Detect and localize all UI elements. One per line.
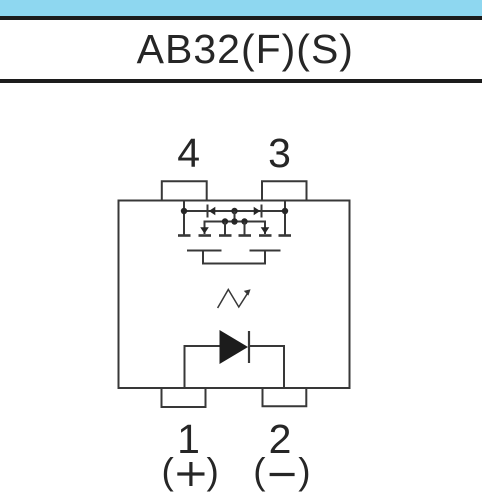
polarity (-) left paren <box>253 451 265 493</box>
diode D1 cathode bar <box>248 331 250 363</box>
node: left bus junction <box>181 208 187 214</box>
header blue band <box>0 0 482 16</box>
polarity (+) right paren <box>207 451 219 493</box>
wire: pin3 drop to bus and down to bar <box>284 201 286 236</box>
wire: center stub bus to gate rail <box>234 211 236 222</box>
pin label 3 <box>250 130 310 177</box>
pin 2 tab <box>263 389 307 406</box>
wire: gate rail <box>205 222 266 235</box>
arrow down at left gate <box>200 227 209 234</box>
electrode bar 1 <box>178 234 191 237</box>
gate tie U-link <box>203 251 265 264</box>
pin label 4 <box>159 130 219 177</box>
node: rail dot C <box>241 218 247 224</box>
pin label 2 <box>250 416 310 463</box>
header bottom rule <box>0 79 482 83</box>
pin 3 tab <box>262 181 307 200</box>
gate plate left <box>187 250 222 252</box>
node: right bus junction <box>282 208 288 214</box>
electrode bar 2 <box>199 234 212 237</box>
node: rail dot B <box>231 218 237 224</box>
zigzag trimming mark <box>218 290 249 309</box>
header top rule <box>0 16 482 20</box>
polarity (+) left paren <box>162 451 174 493</box>
wire: pin4 drop to bus and down to bar <box>183 201 185 236</box>
electrode bar 3 <box>219 234 232 237</box>
wire: rail drop A <box>224 222 226 236</box>
node: center bus junction <box>231 208 237 214</box>
arrow down at right gate <box>261 227 270 234</box>
wire: top bus <box>184 210 285 212</box>
plus sign of (+) <box>177 462 204 486</box>
electrode bar 5 <box>259 234 272 237</box>
title AB32(F)(S) <box>4 26 482 73</box>
electrode bar 6 <box>279 234 292 237</box>
electrode bar 4 <box>239 234 252 237</box>
pin 4 tab <box>162 181 207 200</box>
gate plate right <box>250 250 281 252</box>
zigzag arrowhead <box>244 289 251 295</box>
package body outline <box>119 201 350 389</box>
diode D-left (arrow pointing left, bar at left) <box>207 205 209 218</box>
minus sign of (-) <box>270 473 295 476</box>
wire: diode loop right leg <box>249 346 285 388</box>
node: rail dot A <box>222 218 228 224</box>
wire: rail drop C <box>244 222 246 236</box>
wire: diode loop left leg <box>185 346 220 388</box>
pin label 1 <box>159 416 219 463</box>
diode D-right (arrow pointing right, bar at right) <box>261 205 263 218</box>
diode D1 anode triangle <box>220 330 249 364</box>
polarity (-) right paren <box>298 451 310 493</box>
pin 1 tab <box>162 389 206 407</box>
